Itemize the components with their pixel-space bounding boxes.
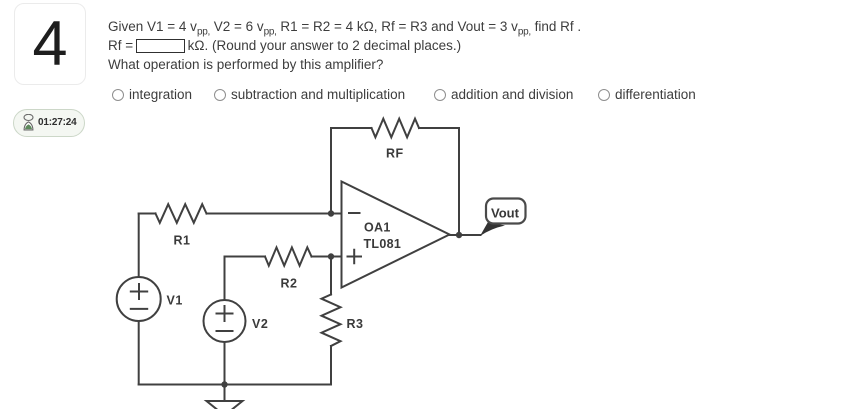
radio option: subtraction and multiplication (214, 87, 405, 102)
wire plus line left segment (225, 256, 266, 258)
wire R3 top stub (330, 257, 332, 295)
wire R3 bottom stub (330, 346, 332, 385)
svg-text:Vout: Vout (491, 206, 520, 221)
wire feedback right vertical down to output (458, 128, 460, 235)
wire feedback top left segment (331, 127, 372, 129)
ground (207, 385, 243, 409)
wire V2 bottom vertical (224, 342, 226, 385)
radio option: integration (112, 87, 192, 102)
resistor RF (372, 119, 420, 138)
radio option: addition and division (434, 87, 573, 102)
wire output segment (450, 234, 481, 236)
label Vout flag (480, 199, 526, 237)
question number card (14, 3, 86, 85)
wire bottom horizontal (139, 384, 331, 386)
wire V2 top vertical up to plus line (224, 257, 226, 301)
junction minus-line / feedback tap (328, 210, 334, 216)
wire left vertical from R1 line down to V1 top (138, 214, 140, 278)
svg-text:R2: R2 (281, 277, 298, 291)
wire plus line right segment into op-amp (312, 256, 342, 258)
timer badge (13, 109, 85, 138)
resistor R1 (156, 204, 207, 223)
voltage source V1 (117, 277, 161, 321)
wire V1 bottom vertical (138, 321, 140, 385)
junction plus-line / R3 tap (328, 253, 334, 259)
svg-text:OA1: OA1 (364, 221, 391, 235)
svg-text:V1: V1 (167, 294, 183, 308)
svg-text:R3: R3 (347, 317, 364, 331)
wire minus line left segment (139, 213, 156, 215)
resistor R2 (265, 247, 312, 265)
junction output node (456, 232, 462, 238)
svg-text:V2: V2 (252, 317, 268, 331)
svg-text:TL081: TL081 (364, 237, 402, 251)
wire minus line right segment into op-amp (207, 213, 342, 215)
svg-text:RF: RF (386, 147, 404, 161)
voltage source V2 (204, 300, 246, 342)
op-amp OA1 TL081 (342, 182, 450, 288)
question text (108, 18, 581, 74)
wire feedback top right segment (419, 127, 459, 129)
junction at V2 bottom on ground rail (221, 381, 227, 387)
resistor R3 (322, 295, 341, 347)
wire feedback left vertical (330, 128, 332, 214)
svg-text:R1: R1 (174, 234, 191, 248)
radio option: differentiation (598, 87, 696, 102)
